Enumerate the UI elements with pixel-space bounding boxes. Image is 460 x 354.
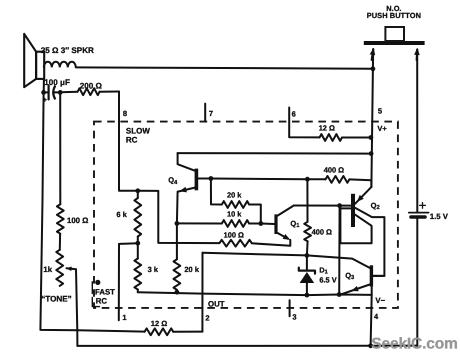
- svg-text:5: 5: [378, 107, 382, 116]
- node junction 10k right: [258, 221, 263, 226]
- svg-text:V−: V−: [375, 296, 385, 305]
- wire 10k row left: [177, 222, 222, 224]
- node junction 6k top: [135, 188, 140, 193]
- FAST RC node dot: [95, 280, 100, 285]
- resistor 12 ohm bottom: [77, 330, 144, 331]
- svg-text:10 k: 10 k: [227, 210, 242, 219]
- svg-text:8: 8: [123, 109, 127, 118]
- wire speaker to push button: [76, 67, 373, 68]
- transistor Q3: [341, 265, 384, 294]
- transistor Q1: [274, 206, 293, 240]
- wire pin 1: [119, 243, 138, 320]
- node junction 20k bottom: [175, 290, 180, 295]
- svg-text:1k: 1k: [43, 265, 52, 274]
- svg-text:PUSH BUTTON: PUSH BUTTON: [367, 11, 421, 20]
- node junction 6k bottom: [135, 241, 140, 246]
- svg-text:100 Ω: 100 Ω: [224, 231, 244, 240]
- wire speaker to capacitor: [43, 79, 45, 93]
- svg-text:RC: RC: [126, 136, 138, 145]
- node junction bus speaker wire: [371, 66, 376, 71]
- svg-text:6.5 V: 6.5 V: [319, 276, 336, 285]
- wire Q4 base rail: [211, 178, 326, 181]
- node junction bus 12ohm: [369, 135, 374, 140]
- svg-text:400 Ω: 400 Ω: [312, 227, 332, 236]
- svg-text:6 k: 6 k: [116, 210, 127, 219]
- resistor 400 ohm horizontal: [326, 176, 350, 183]
- wire Q4 base to 20k horizontal: [211, 179, 222, 205]
- Q2 collector fat wire inner: [340, 208, 371, 243]
- resistor 12 ohm (pins 5-6): [320, 134, 343, 141]
- node junction V- row: [337, 292, 342, 297]
- Q2 collector fat wire outer: [355, 208, 384, 276]
- node junction 10k row: [175, 221, 180, 226]
- transistor Q2: [351, 187, 371, 227]
- resistor 20k vertical: [174, 259, 181, 290]
- node junction bus rail: [369, 151, 374, 156]
- wire rail Q4 collector: [178, 152, 372, 155]
- wire OUT row: [203, 253, 370, 268]
- IC dashed box: [94, 122, 398, 308]
- resistor 20k horizontal: [222, 201, 249, 208]
- pin 7 tick: [204, 104, 206, 122]
- wire Q4 emitter down: [177, 192, 178, 260]
- push button right contact: [416, 50, 419, 61]
- transistor Q4: [178, 153, 211, 192]
- svg-text:20 k: 20 k: [227, 191, 242, 200]
- resistor 100 ohm vertical: [59, 92, 61, 204]
- svg-text:“TONE”: “TONE”: [41, 295, 71, 304]
- resistor 400 ohm vertical: [306, 179, 308, 222]
- svg-text:3: 3: [292, 313, 296, 322]
- wire OUT pin 2 vertical: [201, 253, 203, 332]
- node junction pin4 bottom: [368, 343, 373, 348]
- wire Q2 base node down to V-: [338, 206, 340, 295]
- svg-text:V+: V+: [377, 124, 387, 133]
- svg-text:20 k: 20 k: [184, 265, 199, 274]
- svg-text:OUT: OUT: [208, 300, 225, 309]
- svg-text:3 k: 3 k: [148, 265, 159, 274]
- svg-text:7: 7: [209, 109, 213, 118]
- battery B1 1.5V: [409, 212, 429, 214]
- svg-text:400 Ω: 400 Ω: [324, 166, 344, 175]
- wire pin 4: [371, 295, 372, 346]
- wire Q1 collector to Q2 base: [294, 205, 351, 207]
- wire V+ bus vertical: [371, 49, 373, 187]
- potentiometer 1k TONE: [59, 234, 61, 250]
- svg-text:100 Ω: 100 Ω: [67, 216, 88, 225]
- node Q4 base junction: [209, 176, 214, 181]
- svg-text:100 μF: 100 μF: [44, 78, 70, 87]
- speaker voice coil: [44, 62, 76, 68]
- svg-text:2: 2: [205, 314, 209, 323]
- speaker LS1: [24, 34, 44, 87]
- push button cap: [385, 27, 404, 41]
- node junction D1 top: [305, 253, 310, 258]
- wire tone wiper: [76, 269, 77, 346]
- svg-text:25 Ω 3″ SPKR: 25 Ω 3″ SPKR: [41, 46, 94, 55]
- resistor 10k: [222, 220, 249, 227]
- wire pin8 vertical: [119, 92, 138, 191]
- node junction D1 bottom: [305, 293, 310, 298]
- wire bottom rail: [77, 345, 417, 347]
- resistor 6k: [137, 191, 139, 198]
- svg-text:1.5 V: 1.5 V: [430, 212, 449, 221]
- push button plate: [364, 41, 425, 45]
- wire V- row: [138, 287, 372, 295]
- pin 6 tick and wire: [289, 108, 319, 138]
- svg-text:12 Ω: 12 Ω: [151, 319, 167, 328]
- svg-text:SLOW: SLOW: [126, 127, 150, 136]
- resistor 100 ohm horizontal: [219, 240, 251, 247]
- wire cap-left down to tone junction: [40, 92, 77, 330]
- svg-text:12 Ω: 12 Ω: [319, 124, 335, 133]
- svg-text:1: 1: [122, 313, 126, 322]
- svg-text:RC: RC: [96, 297, 108, 306]
- FAST RC bracket: [91, 282, 93, 294]
- svg-text:6: 6: [292, 110, 296, 119]
- wire battery top: [416, 50, 418, 213]
- node junction Q2 base: [337, 203, 342, 208]
- wire battery bottom: [416, 219, 418, 346]
- svg-text:200 Ω: 200 Ω: [80, 81, 103, 90]
- node junction cap left: [41, 90, 46, 95]
- wire slow node jog to 100 ohm row: [138, 191, 220, 243]
- capacitor C1 100uF: [43, 86, 55, 105]
- node junction cap right: [58, 90, 63, 95]
- resistor 3k: [137, 243, 139, 258]
- zener diode D1: [299, 255, 315, 295]
- svg-text:FAST: FAST: [95, 287, 115, 296]
- wire cap right lead: [54, 91, 60, 93]
- svg-text:SeekIC.com: SeekIC.com: [371, 335, 457, 352]
- node junction rail 400ohm-vert: [305, 177, 310, 182]
- resistor 200 ohm: [60, 91, 77, 94]
- pin 3 tick: [289, 300, 291, 316]
- push button left contact: [372, 50, 374, 61]
- wire cap left lead: [44, 91, 49, 93]
